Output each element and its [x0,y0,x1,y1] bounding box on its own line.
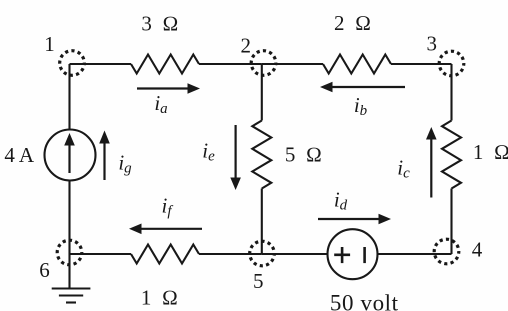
svg-text:ie: ie [202,138,215,164]
arrow if [129,224,202,235]
svg-text:50 volt: 50 volt [330,291,399,311]
ground stem [68,254,70,289]
wire node5 to voltage source [262,253,328,255]
svg-text:id: id [334,188,348,214]
wire R3 to node2 [199,63,262,65]
wire top-left node1 to R3 [70,63,132,65]
svg-text:ia: ia [154,91,167,117]
svg-text:1 Ω: 1 Ω [473,140,508,164]
resistor 1ohm right vertical [442,121,461,189]
ground bar1 [52,287,91,289]
wire node3 down to R1 right [450,64,452,121]
wire node2 to R2 [262,63,323,65]
voltage source plus sign [334,247,350,263]
svg-text:3 Ω: 3 Ω [141,12,178,36]
svg-text:1: 1 [44,32,55,56]
ground bar2 [59,294,83,296]
resistor 1ohm bottom [131,245,199,264]
node 6 dotted circle [57,240,82,265]
arrow ia [137,83,200,94]
svg-text:2 Ω: 2 Ω [334,11,371,35]
svg-text:4: 4 [472,238,483,262]
arrow id [318,214,391,225]
ground bar3 [66,301,76,303]
node 4 dotted circle [434,239,459,264]
svg-text:ib: ib [354,93,368,119]
arrow ic [426,127,437,198]
voltage source circle 50V [328,229,378,279]
svg-text:5 Ω: 5 Ω [285,142,322,166]
arrow ib [320,82,405,93]
resistor 3ohm [131,55,199,74]
voltage source minus bar [363,247,366,263]
current source internal arrow [64,133,75,173]
arrow ig [99,131,110,181]
svg-text:1 Ω: 1 Ω [141,286,178,310]
svg-text:ic: ic [397,156,410,182]
wire R1right to node4 [450,189,452,255]
svg-text:if: if [161,193,173,219]
arrow ie [230,125,241,190]
wire node2 down to R5 [261,64,263,121]
wire node6 to R1 bottom [70,253,132,255]
wire current source to node6 [68,181,70,255]
wire R5 to node5 [261,189,263,255]
node 2 dotted circle [251,51,276,76]
resistor 5ohm vertical [252,121,271,189]
resistor 2ohm [323,55,391,74]
node 3 dotted circle [439,51,464,76]
svg-text:ig: ig [118,151,132,177]
svg-text:2: 2 [240,34,251,58]
wire node1 down to current source [68,64,70,130]
node 5 dotted circle [250,241,275,266]
wire R1bottom to node5 [199,253,262,255]
svg-text:4 A: 4 A [4,143,35,167]
svg-text:3: 3 [427,31,438,55]
wire voltage source to node4 [378,253,452,255]
svg-text:5: 5 [253,269,264,293]
node 1 dotted circle [60,51,85,76]
current source circle 4A [45,130,96,181]
wire R2 to node3 [391,63,452,65]
svg-text:6: 6 [39,258,50,282]
